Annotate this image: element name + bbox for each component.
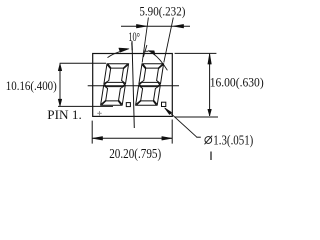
svg-text:20.20(.795): 20.20(.795) xyxy=(109,147,161,162)
svg-text:5.90(.232): 5.90(.232) xyxy=(139,4,185,18)
svg-text:10°: 10° xyxy=(128,30,140,44)
svg-text:16.00(.630): 16.00(.630) xyxy=(210,75,264,89)
svg-text:10.16(.400): 10.16(.400) xyxy=(6,79,57,93)
svg-text:PIN 1.: PIN 1. xyxy=(47,108,82,122)
svg-text:1.3(.051): 1.3(.051) xyxy=(213,133,253,148)
